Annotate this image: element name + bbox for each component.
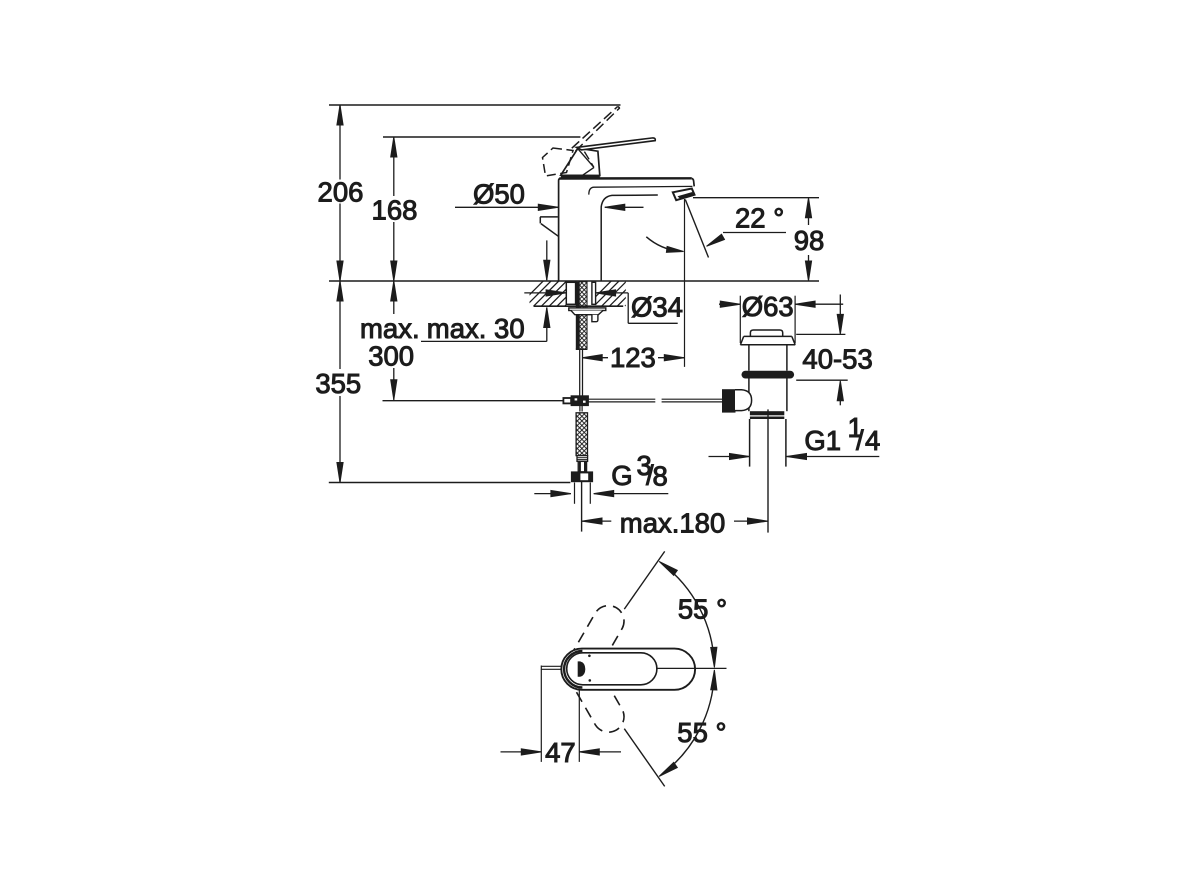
- svg-text:G: G: [611, 460, 632, 491]
- hose end fitting collar: [577, 456, 588, 462]
- svg-text:Ø63: Ø63: [742, 291, 794, 322]
- mounting cone nut: [571, 311, 603, 315]
- threaded shank dark rod: [576, 282, 579, 350]
- drain centerline: [767, 409, 769, 532]
- svg-text:8: 8: [653, 460, 668, 491]
- svg-text:4: 4: [865, 425, 880, 456]
- deck / countertop top line: [329, 280, 819, 282]
- dimension 47 arrows: [501, 751, 542, 753]
- svg-text:G1: G1: [804, 425, 841, 456]
- bottom reference line (hose end level): [329, 482, 571, 484]
- max.30 arrow up at deck bottom: [544, 308, 550, 328]
- flexible supply hose (braided): [576, 413, 587, 456]
- svg-text:40-53: 40-53: [802, 343, 872, 374]
- faucet spout tip right edge: [692, 178, 694, 186]
- handle top view inner capsule: [567, 653, 657, 685]
- dimension Ø34 right arrow and leader to label: [596, 290, 616, 296]
- horizontal pull rod right segment 2 (after gap): [662, 398, 723, 400]
- svg-text:300: 300: [368, 340, 414, 371]
- dimension 206 line: [339, 105, 341, 180]
- handle top view left end thick ring: [564, 651, 582, 688]
- pull-rod cross fitting left tab: [563, 398, 571, 403]
- dimension max.180 right arrow: [734, 520, 768, 522]
- handle top view outer capsule: [561, 649, 695, 690]
- water stream vertical line: [684, 199, 686, 367]
- dimension Ø50 left line and arrow: [455, 206, 558, 208]
- mounting washer below deck: [569, 308, 606, 311]
- hose connection nipple: [592, 315, 598, 322]
- 47 extension line right (pivot): [578, 689, 580, 762]
- dimension 206 arrows: [337, 105, 343, 125]
- drain flange: [744, 335, 792, 337]
- svg-text:123: 123: [610, 342, 656, 373]
- mounting hole right spacer: [592, 282, 596, 304]
- dimension 168 line: [393, 137, 395, 196]
- 47 extension line left: [540, 670, 542, 762]
- deck bottom line: [534, 305, 624, 307]
- dimension G1 1/4 arrows: [709, 456, 750, 458]
- 55-degree arc lower with arrows: [662, 674, 714, 775]
- drain O-ring (dark band): [742, 371, 795, 379]
- handle rotated +55 dashed capsule: [566, 606, 624, 684]
- svg-text:22 °: 22 °: [735, 203, 784, 234]
- dimension 40-53 top arrow: [839, 295, 841, 316]
- handle base line on faucet (thick): [561, 176, 600, 178]
- svg-text:Ø34: Ø34: [631, 291, 683, 322]
- horizontal pull-rod reference line (left): [383, 400, 564, 402]
- drain body lower: [748, 379, 750, 412]
- dimension Ø34 left arrow: [524, 292, 566, 294]
- 22-degree leader line and arrow: [723, 232, 786, 234]
- handle body (solid): [561, 148, 600, 175]
- drain tailpipe: [749, 419, 751, 467]
- aerator outlet slot (dark): [678, 192, 694, 199]
- faucet body left edge: [559, 179, 561, 282]
- dimension max.300 bottom arrow: [391, 380, 397, 400]
- svg-text:55 °: 55 °: [677, 717, 726, 748]
- svg-text:max. 30: max. 30: [427, 313, 525, 344]
- dimension 168 arrows: [391, 137, 397, 157]
- hose end fitting shaft: [578, 461, 586, 471]
- dimension 355 bottom arrow: [337, 463, 343, 483]
- handle pivot dots: [588, 655, 591, 658]
- drain body upper: [748, 345, 750, 371]
- rod stub below fitting: [579, 406, 581, 412]
- max.30 arrow down at deck top: [544, 260, 550, 280]
- pull-rod knob neck: [735, 390, 752, 411]
- svg-text:/: /: [856, 425, 864, 456]
- reference line: handle rest top level (y=137): [383, 136, 580, 138]
- 55-degree leg lower: [624, 729, 664, 787]
- reference line: handle raised top level (y=105): [329, 104, 621, 106]
- dimension Ø50 right line and arrow: [605, 206, 644, 208]
- pop-up pull rod vertical (below shank): [579, 349, 581, 396]
- dimension max.300 line: [393, 281, 395, 314]
- handle rotated -55 dashed capsule: [566, 654, 624, 732]
- G3/8 connection nut: [572, 472, 593, 482]
- 40-53 upper extension line (flange underside): [796, 333, 845, 335]
- horizontal centerline right of capsule: [656, 667, 727, 669]
- handle logo recess (dark D mark): [578, 661, 586, 676]
- drain flange extension lines: [739, 296, 741, 343]
- svg-text:max.: max.: [360, 313, 420, 344]
- svg-text:47: 47: [545, 737, 576, 768]
- dimension 123 left arrow: [582, 355, 602, 361]
- mounting hole left spacer: [566, 282, 575, 304]
- handle raised position dashed body: [543, 148, 574, 176]
- drain push cap: [750, 330, 782, 336]
- dimension 123 right arrow: [658, 357, 684, 359]
- svg-text:max.180: max.180: [620, 507, 725, 538]
- pop-up rod hook at faucet rear: [540, 216, 558, 218]
- horizontal pull rod right segment 1: [588, 398, 655, 400]
- 55-degree arc upper with arrows: [662, 564, 714, 665]
- dimension 98 line and arrows: [808, 202, 810, 225]
- shank bottom edge: [576, 348, 587, 350]
- G3/8 extension lines below nut: [574, 483, 576, 504]
- pull-rod cross fitting block: [571, 396, 588, 406]
- faucet supply centerline: [581, 481, 583, 531]
- pull-rod knurled knob: [723, 390, 736, 412]
- drain bottom seal bands: [750, 411, 784, 415]
- dimension 355 line: [339, 281, 341, 369]
- handle facet lines: [577, 147, 595, 167]
- svg-text:55 °: 55 °: [678, 593, 727, 624]
- svg-text:168: 168: [372, 195, 418, 226]
- handle lever (solid): [577, 138, 656, 150]
- faucet top edge (thick): [559, 177, 692, 180]
- water stream 22-degree diagonal: [685, 200, 708, 258]
- 40-53 lower extension line (O-ring underside): [796, 379, 848, 381]
- svg-text:355: 355: [315, 368, 361, 399]
- handle raised position dashed lever: [572, 107, 620, 152]
- max.30 upper leader line: [546, 240, 548, 280]
- dimension G3/8 arrows: [534, 493, 571, 495]
- flow direction arc with arrow: [646, 237, 680, 252]
- dimension 40-53 bottom arrow: [837, 381, 843, 401]
- deck cross-hatch left band: [518, 281, 590, 306]
- 55-degree leg upper: [624, 551, 664, 609]
- faucet spout underside and body right edge: [601, 195, 658, 281]
- svg-text:Ø50: Ø50: [473, 179, 525, 210]
- dimension max.180 left arrow: [582, 518, 602, 524]
- svg-text:206: 206: [318, 177, 364, 208]
- threaded shank braided section: [579, 282, 587, 350]
- max.30 label underline and leader: [421, 340, 547, 342]
- deck cross-hatch right band: [586, 281, 650, 306]
- dimension Ø63 arrows: [719, 303, 740, 305]
- aerator at spout tip: [673, 189, 695, 201]
- svg-text:98: 98: [794, 225, 825, 256]
- 98 reference line at spout outlet: [693, 197, 819, 199]
- spout stub left of handle (top view): [541, 665, 561, 667]
- handle raised dashed facet line: [584, 152, 593, 167]
- faucet spout inner top line: [589, 186, 693, 194]
